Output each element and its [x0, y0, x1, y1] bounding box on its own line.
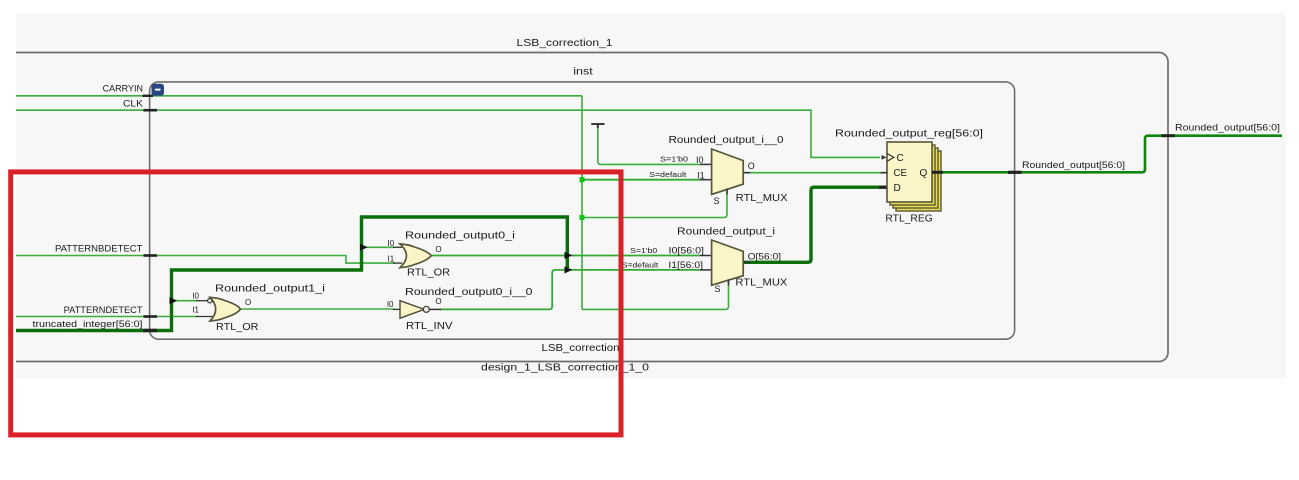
bus rip arrow into OR0 I0 — [360, 244, 368, 251]
pin stub INV O — [430, 308, 442, 310]
wire OR0 output to MUX I0 — [431, 255, 700, 257]
pin stub OR1 I1 — [196, 316, 213, 318]
svg-text:RTL_REG: RTL_REG — [885, 214, 933, 225]
wire CARRYIN to MUX_i S — [582, 281, 729, 309]
pin stub REG Q — [932, 171, 943, 174]
pin stub OR0 I1 — [393, 262, 402, 264]
boundary tick CARRYIN — [143, 95, 154, 97]
pin stub MUX0 I0 — [700, 163, 712, 165]
svg-text:RTL_MUX: RTL_MUX — [735, 277, 787, 288]
svg-text:I1: I1 — [388, 254, 395, 263]
svg-text:RTL_MUX: RTL_MUX — [736, 193, 788, 204]
boundary tick Q wire inner box — [1008, 171, 1022, 174]
wire MUX0 O to REG CE — [743, 172, 887, 174]
wire PATTERNDETECT — [10, 316, 197, 318]
svg-text:I1: I1 — [697, 170, 705, 180]
register RTL_REG stacked pages — [887, 142, 941, 211]
svg-text:RTL_INV: RTL_INV — [406, 321, 453, 332]
pin stub MUX0 S — [726, 189, 728, 195]
svg-text:PATTERNBDETECT: PATTERNBDETECT — [55, 244, 143, 254]
pin stub REG CE — [881, 172, 888, 174]
or-gate OR1 Rounded_output1_i — [210, 297, 240, 321]
wire OR1 output to INV input — [240, 308, 394, 310]
inverter Rounded_output0_i__0 — [400, 301, 424, 319]
svg-text:O: O — [748, 161, 755, 171]
svg-text:O: O — [435, 245, 441, 254]
wire truncated_integer[56:0] bus — [10, 217, 567, 331]
pin stub MUX0 O — [743, 172, 750, 174]
svg-text:LSB_correction: LSB_correction — [542, 343, 620, 354]
wire INV output to MUX I1 — [440, 270, 700, 310]
CARRYIN collapse icon — [152, 84, 165, 96]
canvas background — [16, 13, 1286, 379]
svg-text:LSB_correction_1: LSB_correction_1 — [517, 38, 614, 49]
pin stub OR0 I0 — [393, 246, 402, 248]
bus rip arrow into MUX_i I0 wire — [565, 252, 573, 259]
wire MUX_i O bus to REG D — [743, 187, 887, 262]
pin stub OR1 I0 — [196, 300, 207, 302]
junction dot at MUX0 I1 tap — [580, 177, 585, 182]
svg-text:I0: I0 — [192, 292, 199, 301]
clock wedge REG C — [887, 154, 894, 162]
svg-text:O[56:0]: O[56:0] — [748, 251, 782, 261]
svg-text:S=1'b0: S=1'b0 — [660, 157, 688, 164]
pin stub MUX_i S — [728, 280, 730, 286]
pin stub MUX_i O — [743, 261, 750, 263]
svg-text:S=default: S=default — [649, 172, 686, 179]
red annotation rectangle — [11, 172, 621, 435]
svg-text:I0: I0 — [696, 155, 704, 165]
svg-text:truncated_integer[56:0]: truncated_integer[56:0] — [33, 319, 143, 329]
svg-text:D: D — [894, 183, 901, 194]
boundary tick PATTERNBDETECT — [144, 254, 158, 257]
svg-text:I1: I1 — [192, 305, 199, 314]
svg-text:Rounded_output_i: Rounded_output_i — [677, 227, 775, 238]
svg-text:CLK: CLK — [123, 99, 143, 109]
svg-text:PATTERNDETECT: PATTERNDETECT — [64, 305, 143, 315]
inverter bubble — [423, 306, 429, 312]
svg-text:I1[56:0]: I1[56:0] — [668, 260, 703, 270]
svg-text:O: O — [435, 297, 441, 306]
pin stub REG D — [879, 186, 887, 189]
svg-text:I0: I0 — [387, 300, 394, 309]
wire CARRYIN vertical trunk — [581, 96, 583, 310]
wire CARRYIN horizontal — [10, 95, 582, 97]
bus rip arrow into MUX_i I1 wire — [565, 266, 573, 273]
svg-text:S=default: S=default — [622, 262, 659, 269]
svg-text:S: S — [714, 196, 720, 206]
bubble on OR1 I0 — [208, 299, 212, 303]
wire CARRYIN to MUX0 I1 — [582, 179, 700, 181]
svg-text:I0: I0 — [388, 239, 395, 248]
or-gate OR0 Rounded_output0_i — [400, 244, 431, 268]
boundary tick PATTERNDETECT — [144, 315, 158, 318]
svg-text:Rounded_output[56:0]: Rounded_output[56:0] — [1175, 122, 1280, 132]
bus rip arrow into OR1 I0 — [170, 297, 178, 304]
junction dot at MUX0 S tap — [580, 215, 585, 220]
wire CLK — [10, 110, 880, 157]
boundary tick output wire outer box — [1162, 134, 1176, 137]
svg-text:Rounded_output0_i: Rounded_output0_i — [405, 231, 515, 242]
wire const0 to MUX0 I0 — [598, 126, 700, 164]
svg-text:CE: CE — [894, 168, 908, 179]
svg-text:Rounded_output1_i: Rounded_output1_i — [215, 284, 325, 295]
svg-text:S=1'b0: S=1'b0 — [630, 248, 657, 255]
wire tap to OR1 I0 — [172, 300, 198, 302]
svg-text:design_1_LSB_correction_1_0: design_1_LSB_correction_1_0 — [481, 362, 650, 373]
pin stub MUX_i I1 — [700, 269, 712, 271]
boundary tick CLK — [144, 109, 158, 112]
svg-text:Rounded_output_reg[56:0]: Rounded_output_reg[56:0] — [835, 128, 983, 139]
svg-text:Rounded_output_i__0: Rounded_output_i__0 — [669, 135, 784, 146]
mux MUX_i Rounded_output_i — [712, 240, 744, 285]
pin stub MUX0 I1 — [700, 179, 712, 181]
clock arrow REG C — [882, 155, 887, 160]
wire tap to OR0 I0 — [362, 246, 396, 248]
svg-text:Rounded_output[56:0]: Rounded_output[56:0] — [1022, 160, 1125, 170]
svg-text:RTL_OR: RTL_OR — [216, 322, 259, 333]
svg-text:CARRYIN: CARRYIN — [103, 84, 143, 94]
svg-text:C: C — [897, 153, 904, 164]
svg-text:O: O — [245, 298, 251, 307]
svg-text:S: S — [715, 284, 721, 294]
mux MUX0 Rounded_output_i__0 — [712, 149, 744, 194]
pin stub MUX_i I0 — [700, 255, 712, 257]
svg-text:I0[56:0]: I0[56:0] — [669, 246, 705, 256]
wire CARRYIN to MUX0 S — [582, 191, 727, 218]
svg-text:inst: inst — [573, 67, 593, 78]
svg-text:Q: Q — [920, 168, 928, 179]
svg-text:RTL_OR: RTL_OR — [407, 268, 450, 279]
wire REG Q to output Rounded_output[56:0] — [932, 136, 1282, 173]
outer hierarchy box LSB_correction_1 — [0, 53, 1168, 362]
svg-text:Rounded_output0_i__0: Rounded_output0_i__0 — [405, 287, 533, 298]
inner hierarchy box inst — [150, 82, 1015, 339]
boundary tick truncated_integer — [143, 329, 157, 332]
pin stub INV I0 — [393, 308, 400, 310]
wire PATTERNBDETECT — [10, 256, 395, 264]
const0 T symbol — [591, 124, 604, 128]
